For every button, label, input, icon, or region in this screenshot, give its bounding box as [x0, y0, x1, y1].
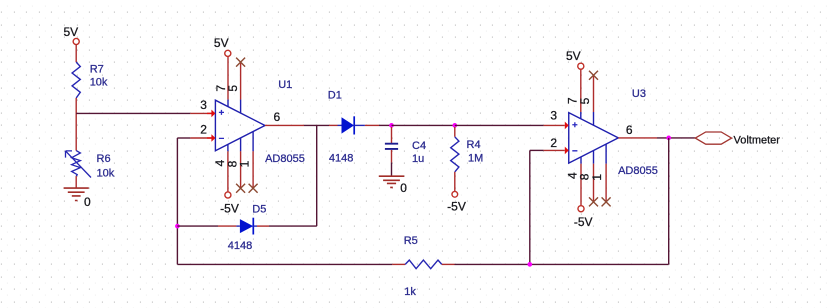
- op-amp U3: [569, 113, 619, 164]
- U3 pin7: [580, 69, 582, 112]
- resistor R6 (variable): [72, 151, 81, 177]
- svg-text:10k: 10k: [90, 77, 108, 89]
- junction C4: [389, 123, 394, 128]
- diode D1: [342, 117, 355, 133]
- wire C4 node to R4 node: [392, 124, 455, 126]
- wire U3 pin2 horizontal: [530, 149, 544, 151]
- no-connect X U3 pin8: [589, 197, 598, 206]
- svg-text:6: 6: [274, 110, 281, 124]
- wire D5 cathode to output node: [269, 225, 317, 227]
- no-connect X U1 pin8: [236, 184, 245, 193]
- U3 pin8: [593, 150, 595, 163]
- svg-text:2: 2: [200, 122, 207, 136]
- power symbol 5V U3: [578, 63, 584, 69]
- svg-text:3: 3: [200, 98, 207, 112]
- U1 pin5: [240, 62, 242, 100]
- resistor R5: [405, 260, 442, 269]
- ground 0 under C4: [379, 176, 404, 187]
- svg-text:5V: 5V: [214, 36, 229, 50]
- off-page connector Voltmeter: [695, 132, 731, 144]
- svg-text:D1: D1: [328, 90, 342, 102]
- svg-text:1k: 1k: [404, 286, 416, 298]
- svg-text:R5: R5: [404, 235, 418, 247]
- U3 pin1: [605, 144, 607, 164]
- no-connect X U1 pin1: [249, 184, 258, 193]
- svg-text:1: 1: [590, 174, 604, 181]
- U1 pin7: [227, 56, 229, 99]
- resistor R7: [72, 62, 80, 98]
- no-connect X U1 pin5: [236, 58, 245, 67]
- svg-text:R6: R6: [97, 153, 111, 165]
- svg-text:4148: 4148: [228, 240, 252, 252]
- svg-text:2: 2: [550, 136, 557, 150]
- op-amp U1: [215, 100, 265, 151]
- svg-text:4148: 4148: [329, 153, 353, 165]
- wire U1 pin2 horizontal: [177, 137, 190, 139]
- wire U1 pin2 vertical down to bottom loop: [176, 138, 178, 264]
- no-connect X U3 pin5: [589, 71, 598, 80]
- wire R4 node to U3 pin3: [455, 124, 544, 126]
- power symbol 5V left bubble: [73, 38, 79, 44]
- svg-text:1M: 1M: [468, 153, 483, 165]
- junction D5 anode: [175, 224, 180, 229]
- svg-text:6: 6: [626, 123, 633, 137]
- no-connect X U3 pin1: [602, 197, 611, 206]
- svg-text:1: 1: [238, 160, 252, 167]
- U1 pin2 arrow: [211, 134, 215, 142]
- svg-text:-5V: -5V: [574, 215, 593, 229]
- svg-text:C4: C4: [412, 140, 426, 152]
- svg-text:0: 0: [84, 195, 91, 209]
- power symbol -5V U3 bubble: [578, 206, 584, 212]
- svg-text:D5: D5: [252, 204, 266, 216]
- wire feedback right vertical: [668, 138, 670, 265]
- U1 pin1: [252, 132, 254, 152]
- diode D5: [240, 219, 253, 233]
- U1 pin4: [227, 144, 229, 151]
- svg-text:U3: U3: [632, 88, 646, 100]
- svg-text:1u: 1u: [412, 153, 424, 165]
- wire U3 output: [618, 137, 657, 139]
- resistor R4: [454, 127, 456, 137]
- svg-text:R7: R7: [90, 64, 104, 76]
- U3 pin3 arrow: [565, 122, 569, 130]
- wire node R7/R6 to U1 pin3: [76, 112, 190, 114]
- ground 0 left: [64, 188, 89, 200]
- svg-text:-5V: -5V: [447, 200, 466, 214]
- power symbol 5V U1: [225, 50, 231, 56]
- svg-text:3: 3: [550, 108, 557, 122]
- wire R7 to R6: [75, 98, 77, 151]
- wire D1 to C4 node: [379, 124, 392, 126]
- junction bottom to U3 pin2: [527, 262, 532, 267]
- wire U3 pin2 vertical: [529, 150, 531, 264]
- U3 pin5: [593, 75, 595, 112]
- svg-text:AD8055: AD8055: [265, 153, 305, 165]
- svg-text:-5V: -5V: [220, 202, 239, 216]
- svg-text:10k: 10k: [97, 167, 115, 179]
- junction U3 output: [666, 136, 671, 141]
- U3 pin2 arrow: [565, 147, 569, 155]
- power symbol -5V under R4: [452, 191, 458, 197]
- wire U1 output pin6: [265, 124, 304, 126]
- svg-text:0: 0: [400, 181, 407, 195]
- wire to D5: [177, 225, 218, 227]
- wire 5V bubble to R7: [75, 44, 77, 62]
- svg-text:5: 5: [226, 85, 240, 92]
- junction R4: [452, 123, 457, 128]
- power symbol -5V U1 bubble: [225, 192, 231, 198]
- capacitor C4: [391, 127, 393, 143]
- svg-text:Voltmeter: Voltmeter: [734, 135, 781, 147]
- svg-text:AD8055: AD8055: [618, 165, 658, 177]
- svg-text:R4: R4: [467, 139, 481, 151]
- U1 pin3 arrow: [211, 110, 215, 118]
- svg-text:5V: 5V: [566, 49, 581, 63]
- U1 pin8: [240, 138, 242, 151]
- wire bottom feedback: [177, 263, 392, 265]
- svg-text:U1: U1: [278, 79, 292, 91]
- svg-text:5V: 5V: [64, 25, 79, 39]
- U3 pin4: [580, 157, 582, 164]
- svg-text:5: 5: [578, 97, 592, 104]
- wire R6 to ground: [75, 176, 77, 188]
